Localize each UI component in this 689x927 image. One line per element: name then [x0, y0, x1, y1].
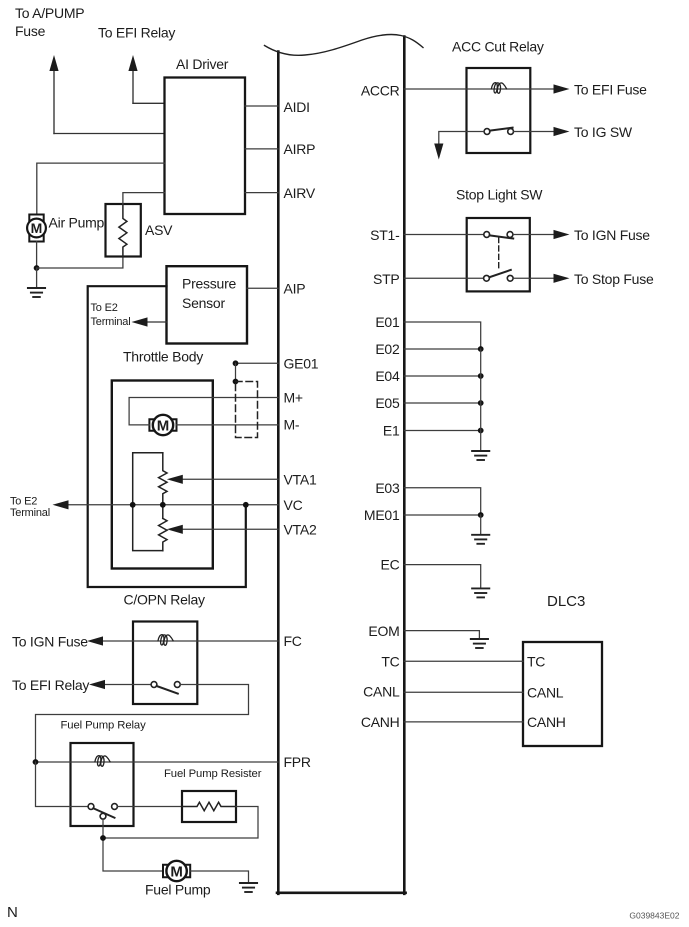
node E1: [478, 428, 484, 434]
svg-text:CANH: CANH: [361, 714, 400, 730]
svg-text:Stop Light SW: Stop Light SW: [456, 187, 543, 203]
ground (EC): [472, 588, 489, 597]
svg-text:FPR: FPR: [284, 754, 311, 770]
arrow to EFI Relay (left): [12, 677, 105, 693]
svg-text:Terminal: Terminal: [10, 507, 50, 519]
relay K1 C/OPN Relay: [124, 592, 206, 705]
pressure sensor: [167, 266, 248, 343]
svg-text:AIRP: AIRP: [284, 141, 316, 157]
svg-text:TC: TC: [381, 653, 399, 669]
throttle body enclosure (open right side): [88, 286, 246, 587]
resistor box Fuel Pump Resister: [164, 768, 262, 822]
arrow to Stop Fuse: [554, 271, 654, 287]
ground (EOM): [471, 639, 488, 648]
svg-text:E05: E05: [375, 395, 400, 411]
relay K2 Fuel Pump Relay: [61, 720, 147, 827]
svg-text:EC: EC: [381, 557, 400, 573]
svg-text:ST1-: ST1-: [370, 227, 400, 243]
wire E bus to ground: [480, 349, 482, 451]
coil (fuel pump relay): [95, 756, 110, 767]
svg-text:E02: E02: [375, 341, 400, 357]
svg-text:Fuel Pump Resister: Fuel Pump Resister: [164, 768, 262, 780]
switch (fuel pump relay): [88, 804, 117, 820]
svg-text:To EFI Relay: To EFI Relay: [12, 677, 89, 693]
wire pin VTA1 with wiper arrow: [167, 471, 317, 487]
connector DLC3: [523, 593, 602, 746]
wire ASV top to AI Driver: [123, 193, 165, 204]
arrow to EFI Relay (top): [98, 25, 175, 104]
ECM body left edge: [277, 52, 280, 894]
switch (ACC cut relay): [484, 128, 513, 135]
svg-text:Air Pump: Air Pump: [49, 215, 105, 231]
wire pin EC: [404, 565, 480, 588]
wire switch to IG SW arrow: [514, 131, 557, 133]
arrow VC to E2 terminal: [10, 495, 69, 519]
svg-text:ACCR: ACCR: [361, 83, 400, 99]
wire pin E05: [404, 402, 480, 404]
wire pin VTA2 with wiper arrow: [167, 521, 317, 537]
svg-text:E01: E01: [375, 314, 400, 330]
svg-text:To E2: To E2: [10, 495, 37, 507]
svg-text:To Stop Fuse: To Stop Fuse: [574, 271, 654, 287]
svg-text:To A/PUMP: To A/PUMP: [15, 5, 84, 21]
arrow to IG SW: [554, 124, 633, 140]
wire air pump to ground junction: [36, 242, 38, 269]
node VC on resistor chain: [160, 502, 166, 508]
node connector top: [233, 379, 239, 385]
svg-text:EOM: EOM: [368, 623, 399, 639]
wire A/PUMP arrow to AI Driver: [54, 133, 165, 135]
svg-text:TC: TC: [527, 653, 545, 669]
svg-text:M: M: [170, 864, 183, 881]
node E05: [478, 400, 484, 406]
resistor (upper VTA): [159, 453, 167, 519]
wire pin M-: [177, 424, 279, 426]
svg-text:ME01: ME01: [364, 507, 400, 523]
resistor (lower VTA): [159, 518, 167, 550]
node VC on enclosure edge: [243, 502, 249, 508]
switch contacts STP: [484, 270, 514, 281]
svg-text:VTA1: VTA1: [284, 471, 317, 487]
arrow to IGN Fuse: [12, 634, 103, 650]
wire GE01 to connector: [235, 363, 237, 381]
wire fuel pump to ground: [190, 871, 248, 883]
svg-text:CANL: CANL: [363, 683, 400, 699]
svg-text:VTA2: VTA2: [284, 521, 317, 537]
node VC on loop: [130, 502, 136, 508]
svg-text:G039843E02: G039843E02: [629, 911, 679, 921]
svg-text:AIP: AIP: [284, 280, 306, 296]
throttle inner box: [112, 381, 213, 569]
svg-text:ASV: ASV: [145, 222, 173, 238]
wire pin E01: [404, 322, 480, 349]
svg-text:To IGN Fuse: To IGN Fuse: [574, 227, 650, 243]
svg-text:Pressure: Pressure: [182, 276, 236, 292]
svg-text:M: M: [157, 418, 170, 435]
arrow down (ACC relay): [434, 144, 443, 160]
ground (air pump): [28, 288, 45, 297]
svg-text:Fuse: Fuse: [15, 23, 46, 39]
wire ST1 to IGN fuse arrow: [513, 234, 557, 236]
wire pin CANH: [404, 721, 523, 723]
svg-text:ACC Cut Relay: ACC Cut Relay: [452, 39, 544, 55]
throttle motor M: [149, 415, 176, 435]
relay K3 ACC Cut Relay: [452, 39, 544, 154]
node GE01 junction: [233, 360, 239, 366]
wire pin STP: [404, 277, 483, 279]
air pump motor M: [27, 215, 104, 242]
node air pump / ASV junction: [34, 265, 40, 271]
svg-text:To IGN Fuse: To IGN Fuse: [12, 634, 88, 650]
fuel pump motor M: [145, 861, 211, 898]
arrow to A/PUMP Fuse: [15, 5, 84, 134]
svg-text:E04: E04: [375, 368, 400, 384]
svg-text:CANL: CANL: [527, 684, 564, 700]
svg-text:GE01: GE01: [284, 355, 319, 371]
svg-text:Sensor: Sensor: [182, 295, 225, 311]
svg-text:To IG SW: To IG SW: [574, 124, 633, 140]
wire pin FC: [99, 640, 278, 642]
wire pin VC: [64, 504, 278, 506]
svg-text:E03: E03: [375, 480, 400, 496]
wire pin EOM: [404, 631, 479, 639]
wire AI Driver to air pump: [37, 163, 165, 214]
wire FPR junction down to switch: [36, 762, 89, 807]
svg-text:Fuel Pump Relay: Fuel Pump Relay: [61, 720, 147, 732]
wire switch to resister: [117, 806, 182, 808]
wire to EFI relay arrow: [101, 684, 151, 686]
wire pin AIP: [247, 287, 278, 289]
switch contacts ST1: [484, 232, 513, 239]
AI Driver U1: [165, 56, 246, 214]
wire pin ACCR: [404, 88, 556, 90]
connector dashed box: [236, 382, 258, 438]
svg-text:AIRV: AIRV: [284, 185, 316, 201]
ECM body bottom edge: [277, 891, 406, 894]
wire pin ME01: [404, 514, 480, 516]
wire STP to stop fuse arrow: [513, 277, 556, 279]
wire ACC switch to down arrow: [439, 132, 484, 147]
coil (C/OPN relay): [158, 635, 173, 646]
wire junction to ground: [36, 268, 38, 288]
svg-text:CANH: CANH: [527, 714, 566, 730]
svg-text:E1: E1: [383, 423, 400, 439]
svg-text:VC: VC: [284, 497, 303, 513]
svg-text:M: M: [31, 220, 43, 236]
node fuel pump junction: [100, 835, 106, 841]
node ME01: [478, 512, 484, 518]
arrow to EFI Fuse: [554, 82, 648, 98]
ground (fuel pump): [240, 883, 257, 892]
wire pin AIRV: [245, 192, 278, 194]
node E04: [478, 373, 484, 379]
svg-text:N: N: [7, 904, 18, 921]
wire pin AIRP: [245, 148, 278, 150]
svg-text:AI Driver: AI Driver: [176, 56, 229, 72]
ground (ME01): [472, 535, 489, 544]
svg-text:FC: FC: [284, 633, 302, 649]
wire C/OPN switch to fuel pump relay: [36, 685, 249, 763]
arrow to IGN Fuse (right): [554, 227, 651, 243]
ASV valve: [106, 204, 174, 257]
svg-text:To EFI Fuse: To EFI Fuse: [574, 82, 647, 98]
svg-text:STP: STP: [373, 271, 399, 287]
svg-text:AIDI: AIDI: [284, 99, 310, 115]
wire pin ST1-: [404, 234, 484, 236]
dashed link between switch blades: [498, 238, 500, 270]
svg-text:Terminal: Terminal: [91, 316, 131, 328]
wire pin M+: [129, 398, 278, 425]
node E02: [478, 346, 484, 352]
wire pin E02: [404, 348, 480, 350]
svg-text:Throttle Body: Throttle Body: [123, 349, 203, 365]
switch (C/OPN relay): [151, 682, 180, 694]
svg-text:C/OPN Relay: C/OPN Relay: [124, 592, 206, 608]
wire ME01 to ground: [480, 515, 482, 534]
node FPR junction: [33, 759, 39, 765]
svg-text:To E2: To E2: [91, 302, 118, 314]
wire pin E1: [404, 430, 480, 432]
svg-text:M+: M+: [284, 390, 303, 406]
throttle position sensor loop box: [133, 453, 163, 551]
arrow pressure sensor to E2 terminal: [91, 302, 167, 328]
wire pin CANL: [404, 691, 523, 693]
wire junction to ASV bottom: [37, 257, 123, 269]
wire pin FPR: [36, 761, 279, 763]
wire pin GE01: [236, 362, 279, 364]
wire resister to fuel pump junction: [103, 807, 258, 839]
wire pin AIDI: [245, 105, 278, 107]
ground (E01-E1): [472, 451, 489, 460]
switch SW1 Stop Light SW: [456, 187, 543, 292]
svg-text:DLC3: DLC3: [547, 593, 585, 610]
wire switch common down to fuel pump: [103, 819, 162, 871]
ECM body wavy top edge: [265, 35, 424, 56]
wire pin TC: [404, 660, 523, 662]
wire EFI relay arrow to AI Driver: [133, 102, 165, 104]
svg-text:M-: M-: [284, 417, 300, 433]
wire pin E04: [404, 375, 480, 377]
svg-text:Fuel Pump: Fuel Pump: [145, 882, 211, 898]
coil (ACC cut relay): [491, 83, 506, 94]
wire pin E03: [404, 488, 480, 515]
ECM body right edge: [403, 37, 406, 894]
svg-text:To EFI Relay: To EFI Relay: [98, 25, 175, 41]
